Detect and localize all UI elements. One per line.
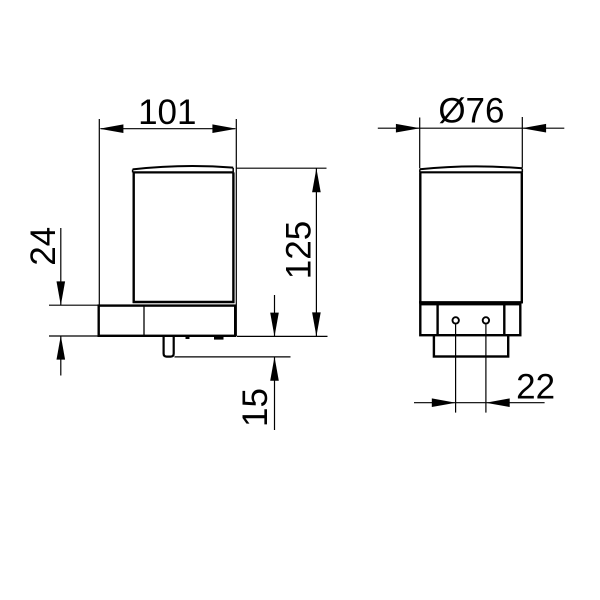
arrowhead diameter76 right [522,124,546,133]
bracket inner edge right [503,304,505,335]
bracket inner edge left [436,304,438,335]
dimension 24 [49,228,98,376]
screw hole left [453,317,459,323]
arrowhead 22 left [432,398,456,407]
arrowhead 101 left [99,124,123,133]
svg-text:22: 22 [516,368,555,407]
arrowhead 22 right [486,398,510,407]
svg-text:15: 15 [236,388,275,427]
svg-text:125: 125 [279,221,318,279]
svg-text:Ø76: Ø76 [438,92,504,131]
container body front view [133,166,235,303]
dimension 125 [236,168,328,336]
spout [164,337,174,357]
cylinder side view [419,166,523,303]
dimension diameter 76 [378,117,565,168]
arrowhead diameter76 left [396,124,420,133]
dimension 15 [175,295,291,430]
arrowhead 15 upper [270,313,279,337]
arrowhead 24 lower [57,336,66,360]
bracket lower side view [434,335,508,356]
arrowhead 125 bottom [312,312,321,336]
svg-text:101: 101 [138,93,196,132]
arrowhead 15 lower [270,357,279,381]
plate divider line [143,306,145,336]
arrowhead 125 top [312,168,321,192]
pump detail marks [186,337,190,339]
dimension 101 [99,119,236,336]
bracket upper side view [420,304,520,335]
arrowhead 101 right [212,124,236,133]
screw hole right [483,317,489,323]
wall plate front view [99,306,236,336]
arrowhead 24 upper [57,281,66,305]
svg-text:24: 24 [24,227,63,266]
dimension 22 [414,325,545,413]
